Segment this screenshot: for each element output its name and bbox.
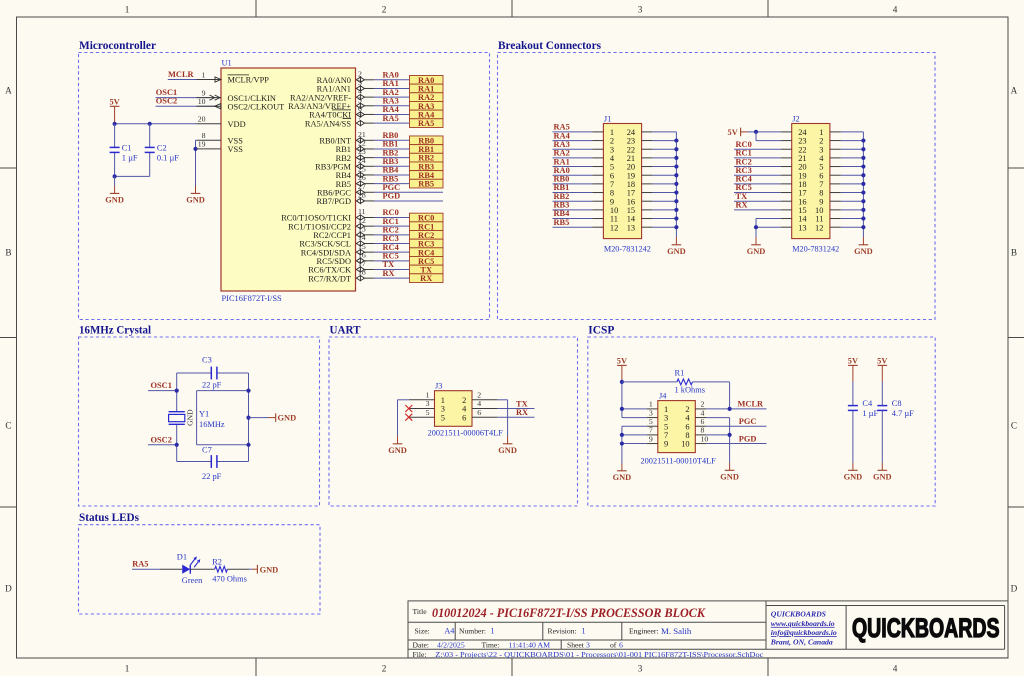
svg-text:GND: GND [844, 473, 863, 482]
svg-text:1: 1 [649, 400, 653, 409]
crystal case pin GND bracket [185, 391, 248, 445]
port TX [410, 265, 444, 274]
connector J1 body [603, 114, 651, 253]
svg-text:RA3: RA3 [383, 96, 399, 105]
port RA4 [410, 110, 444, 119]
ground GND below C1 [105, 176, 124, 204]
svg-text:A: A [1011, 86, 1018, 96]
capacitor C4 [848, 382, 879, 463]
U1 pin 13 RC2/CCP1 [313, 224, 374, 240]
svg-text:010012024 - PIC16F872T-I/SS PR: 010012024 - PIC16F872T-I/SS PROCESSOR BL… [432, 606, 706, 620]
svg-text:RC2: RC2 [418, 231, 434, 240]
svg-text:RB2: RB2 [554, 192, 570, 201]
svg-text:21: 21 [798, 154, 806, 163]
svg-text:RA4: RA4 [383, 105, 400, 114]
svg-text:MCLR/VPP: MCLR/VPP [228, 76, 270, 85]
svg-text:C7: C7 [202, 446, 212, 455]
ground GND below VSS [186, 186, 205, 205]
svg-text:GND: GND [185, 409, 194, 426]
wire C1-C2 bottoms [115, 175, 150, 177]
net label TX with wire [374, 260, 410, 269]
svg-text:J3: J3 [435, 381, 442, 390]
svg-text:4.7 µF: 4.7 µF [892, 409, 914, 418]
svg-text:VSS: VSS [228, 145, 244, 154]
svg-text:21: 21 [358, 130, 366, 139]
U1 pin 26 RB5 [336, 173, 374, 189]
svg-text:8: 8 [685, 431, 689, 440]
svg-text:18: 18 [627, 180, 635, 189]
U1 pin 14 RC3/SCK/SCL [299, 233, 374, 249]
svg-text:18: 18 [358, 268, 366, 277]
svg-text:RC3: RC3 [736, 166, 752, 175]
svg-text:18: 18 [798, 180, 806, 189]
svg-text:OSC2: OSC2 [156, 97, 177, 106]
U1 pin 25 RB4 [336, 165, 374, 181]
svg-text:27: 27 [358, 182, 366, 191]
svg-text:RC0: RC0 [418, 214, 434, 223]
net label RB5 to J1 with wire [553, 218, 604, 227]
U1 pin 12 RC1/T1OSI/CCP2 [288, 216, 374, 232]
svg-text:8: 8 [819, 189, 823, 198]
svg-text:RC2/CCP1: RC2/CCP1 [313, 231, 351, 240]
net label OSC2 with wire [148, 435, 177, 445]
net label OSC2 with wire [156, 97, 215, 107]
net label RC5 to J2 with wire [734, 183, 792, 192]
svg-text:2: 2 [382, 664, 387, 674]
svg-text:Breakout Connectors: Breakout Connectors [498, 39, 601, 52]
junction J2 bus [861, 147, 865, 151]
net label PGC with wire [695, 417, 766, 426]
svg-text:RA5/AN4/SS: RA5/AN4/SS [305, 119, 351, 128]
svg-text:Title: Title [413, 607, 428, 616]
svg-text:C8: C8 [892, 399, 902, 408]
svg-text:7: 7 [358, 113, 362, 122]
svg-text:1: 1 [426, 391, 430, 400]
svg-text:QUICKBOARDS: QUICKBOARDS [852, 613, 1000, 643]
net label RB0 with wire [374, 131, 410, 140]
svg-text:Time:: Time: [482, 641, 500, 650]
svg-text:1 µF: 1 µF [862, 409, 878, 418]
svg-text:RB5: RB5 [418, 180, 434, 189]
svg-text:4: 4 [701, 408, 705, 417]
net label RB1 to J1 with wire [553, 183, 604, 192]
svg-text:21: 21 [627, 154, 635, 163]
svg-text:of: of [610, 641, 617, 650]
svg-text:RA2: RA2 [554, 149, 570, 158]
J2 right side ground bus [830, 132, 864, 237]
svg-text:RC3: RC3 [383, 234, 399, 243]
junction J2 bus [861, 182, 865, 186]
svg-text:26: 26 [358, 173, 366, 182]
svg-text:A4: A4 [444, 627, 454, 636]
net label RC1 to J2 with wire [734, 149, 792, 158]
svg-text:TX: TX [420, 266, 432, 275]
svg-text:3: 3 [664, 414, 668, 423]
junction J1 bus [674, 225, 678, 229]
svg-text:RB2: RB2 [418, 154, 434, 163]
svg-text:8: 8 [610, 189, 614, 198]
svg-text:5V: 5V [877, 357, 887, 366]
svg-text:RB1: RB1 [383, 140, 399, 149]
net label RB3 with wire [374, 157, 410, 166]
svg-text:20: 20 [198, 115, 206, 124]
U1 pin 8 VSS [197, 131, 244, 145]
svg-text:GND: GND [278, 414, 297, 423]
svg-text:PGC: PGC [739, 417, 757, 426]
wire LED to R2 [190, 568, 214, 570]
svg-text:RB0: RB0 [383, 131, 399, 140]
svg-text:22: 22 [627, 145, 635, 154]
power port GND right of crystal [249, 413, 297, 422]
section box: 16MHz Crystal [79, 337, 320, 506]
net label RX to J2 with wire [734, 201, 792, 210]
svg-text:RA2: RA2 [383, 88, 399, 97]
svg-text:D: D [5, 584, 12, 594]
svg-text:B: B [1011, 248, 1017, 258]
junction at C1 top [113, 122, 117, 126]
ground GND below C4 [844, 463, 863, 482]
svg-text:GND: GND [854, 247, 873, 256]
svg-text:11: 11 [610, 215, 618, 224]
svg-text:9: 9 [819, 197, 823, 206]
wire J4 pins 4,8 to ground [695, 418, 729, 463]
svg-text:2: 2 [358, 69, 362, 78]
net label TX to J2 with wire [734, 192, 792, 201]
svg-text:6: 6 [701, 417, 705, 426]
svg-text:RC1: RC1 [383, 217, 399, 226]
net label RX with wire [374, 269, 410, 278]
svg-text:R1: R1 [675, 369, 685, 378]
svg-text:RC1: RC1 [736, 149, 752, 158]
svg-text:QUICKBOARDS: QUICKBOARDS [771, 610, 826, 619]
svg-text:M20-7831242: M20-7831242 [792, 244, 839, 253]
svg-text:RB5: RB5 [383, 174, 399, 183]
svg-text:22 pF: 22 pF [202, 381, 222, 390]
junction J1 bus [674, 164, 678, 168]
svg-text:5V: 5V [109, 98, 119, 107]
svg-text:Z:\03 - Projects\22 - QUICKBOA: Z:\03 - Projects\22 - QUICKBOARDS\01 - P… [435, 650, 764, 659]
svg-text:5: 5 [649, 417, 653, 426]
svg-text:7: 7 [664, 431, 668, 440]
svg-text:6: 6 [685, 422, 689, 431]
svg-text:1 µF: 1 µF [122, 154, 138, 163]
svg-text:RB3: RB3 [554, 201, 570, 210]
svg-text:9: 9 [664, 440, 668, 449]
svg-text:5V: 5V [728, 128, 738, 137]
svg-text:2: 2 [477, 391, 481, 400]
port RB4 [410, 171, 444, 180]
section box: Status LEDs [79, 525, 321, 614]
title block text [413, 606, 764, 659]
U1 pin 28 RB7/PGD [317, 191, 374, 207]
section box: UART [329, 337, 578, 506]
net label MCLR with wire [168, 70, 215, 80]
svg-text:Date:: Date: [413, 641, 429, 650]
port RA0 [410, 75, 444, 84]
svg-text:23: 23 [798, 137, 806, 146]
svg-text:PGD: PGD [383, 192, 401, 201]
svg-text:20021511-00006T4LF: 20021511-00006T4LF [428, 428, 504, 437]
junction right mid [246, 416, 250, 420]
svg-text:RB6/PGC: RB6/PGC [317, 188, 351, 197]
svg-text:5: 5 [819, 163, 823, 172]
port RA2 [410, 93, 444, 102]
svg-text:B: B [5, 248, 11, 258]
net label MCLR with wire at J4 [695, 400, 766, 409]
J1 right side ground bus [642, 132, 677, 237]
svg-text:4/2/2025: 4/2/2025 [437, 641, 465, 650]
svg-text:RC2: RC2 [383, 226, 399, 235]
junction J1 bus [674, 182, 678, 186]
svg-text:GND: GND [260, 566, 279, 575]
svg-text:23: 23 [358, 147, 366, 156]
svg-text:UART: UART [330, 324, 361, 337]
power port 5V above C8 [877, 357, 887, 382]
svg-text:RC7/RX/DT: RC7/RX/DT [308, 274, 351, 283]
svg-text:C: C [1011, 421, 1017, 431]
ground GND below J2 bus [854, 237, 873, 256]
junction at C1 bottom [113, 174, 117, 178]
capacitor C3 [177, 356, 249, 390]
LED D1 [177, 553, 203, 586]
junction J2 bus [861, 225, 865, 229]
port RX [410, 274, 444, 283]
ground GND below J3 left [388, 436, 407, 455]
svg-text:5: 5 [358, 95, 362, 104]
svg-text:C4: C4 [862, 399, 873, 408]
U1 pin 23 RB2 [336, 147, 374, 163]
power port 5V at ICSP [617, 357, 627, 382]
svg-text:19: 19 [198, 140, 206, 149]
svg-text:PIC16F872T-I/SS: PIC16F872T-I/SS [222, 294, 283, 303]
svg-text:10: 10 [815, 206, 823, 215]
svg-text:GND: GND [667, 247, 686, 256]
svg-text:RA1: RA1 [554, 157, 570, 166]
power port 5V above C4 [848, 357, 858, 382]
svg-text:10: 10 [198, 97, 206, 106]
svg-text:VDD: VDD [228, 120, 246, 129]
svg-text:2: 2 [610, 137, 614, 146]
svg-text:24: 24 [627, 128, 636, 137]
svg-text:23: 23 [627, 137, 635, 146]
junction J1 bus [674, 190, 678, 194]
wire J3 pin2 to ground [472, 400, 508, 436]
svg-text:5: 5 [441, 413, 445, 422]
svg-text:1: 1 [582, 627, 586, 636]
svg-text:RA5: RA5 [418, 119, 434, 128]
svg-text:RC6/TX/CK: RC6/TX/CK [308, 266, 351, 275]
section box: ICSP [588, 337, 935, 506]
svg-text:D1: D1 [177, 553, 187, 562]
junction MCLR node [728, 407, 732, 411]
svg-text:5V: 5V [617, 357, 627, 366]
svg-text:RC5: RC5 [383, 252, 399, 261]
QUICKBOARDS logo [852, 613, 1000, 643]
junction right top [246, 389, 250, 393]
svg-text:3: 3 [358, 78, 362, 87]
svg-text:GND: GND [105, 196, 124, 205]
U1 pin 5 RA3/AN3/VREF+ [288, 95, 374, 111]
svg-text:13: 13 [627, 223, 635, 232]
connector J2 pin numbers [798, 128, 824, 232]
power port 5V at J2 [728, 128, 748, 138]
svg-text:24: 24 [798, 128, 807, 137]
port RC4 [410, 248, 444, 257]
svg-text:15: 15 [798, 206, 806, 215]
capacitor C8 [877, 382, 914, 463]
svg-text:RB4: RB4 [336, 171, 352, 180]
svg-text:2: 2 [701, 400, 705, 409]
svg-text:RA5: RA5 [554, 123, 570, 132]
svg-text:1: 1 [819, 128, 823, 137]
svg-text:10: 10 [701, 434, 709, 443]
net label RB2 to J1 with wire [553, 192, 604, 201]
U1 pin 16 RC5/SDO [317, 250, 374, 266]
junction J2 pin13 wire [754, 225, 758, 229]
port RC1 [410, 222, 444, 231]
svg-text:5: 5 [426, 408, 430, 417]
svg-text:5: 5 [610, 163, 614, 172]
svg-text:RA4: RA4 [418, 111, 435, 120]
junction J2 bus [861, 173, 865, 177]
junction at C2 top [148, 122, 152, 126]
net label RA5 with wire [132, 560, 182, 570]
svg-text:RB5: RB5 [554, 218, 570, 227]
svg-text:17: 17 [627, 189, 635, 198]
svg-text:GND: GND [747, 247, 766, 256]
port RB5 [410, 179, 444, 188]
svg-text:RB3: RB3 [418, 162, 434, 171]
svg-text:J4: J4 [659, 391, 667, 400]
U1 pin 3 RA1/AN1 [317, 78, 374, 94]
svg-text:RB1: RB1 [418, 145, 434, 154]
svg-text:C: C [5, 421, 11, 431]
junction OSC2 [175, 443, 179, 447]
svg-text:A: A [5, 86, 12, 96]
wire crystal left vertical [176, 373, 178, 462]
J3 pin 5 no connect [405, 414, 434, 421]
svg-text:File:: File: [413, 650, 427, 659]
svg-text:Engineer:: Engineer: [629, 627, 659, 636]
svg-text:3: 3 [638, 5, 643, 15]
svg-text:RC5/SDO: RC5/SDO [317, 257, 351, 266]
svg-text:Y1: Y1 [199, 410, 209, 419]
svg-text:19: 19 [627, 171, 635, 180]
net label RA0 with wire [374, 71, 410, 80]
junction J1 bus [674, 199, 678, 203]
section box: Microcontroller [79, 53, 490, 320]
svg-text:RA3: RA3 [554, 140, 570, 149]
svg-text:www.quickboards.io: www.quickboards.io [771, 619, 835, 628]
U1 pin 15 RC4/SDI/SDA [301, 242, 374, 258]
connector J4 body [641, 391, 717, 465]
junction OSC1 [175, 389, 179, 393]
net label OSC1 with wire [148, 381, 177, 391]
U1 pin 21 RB0/INT [319, 130, 374, 146]
svg-text:C3: C3 [202, 356, 212, 365]
capacitor C7 [177, 446, 249, 481]
net label OSC1 with wire [156, 88, 210, 98]
svg-text:15: 15 [358, 242, 366, 251]
svg-text:16MHz: 16MHz [199, 420, 225, 429]
svg-text:11: 11 [358, 207, 366, 216]
svg-text:RA3: RA3 [418, 102, 434, 111]
net label RX with wire [472, 408, 535, 417]
connector J3 body [428, 381, 504, 437]
svg-text:19: 19 [798, 171, 806, 180]
svg-text:RC4: RC4 [736, 175, 753, 184]
junction J2 bus [861, 138, 865, 142]
net label RB4 to J1 with wire [553, 209, 604, 218]
svg-text:2: 2 [685, 405, 689, 414]
svg-text:25: 25 [358, 165, 366, 174]
svg-text:4: 4 [358, 87, 362, 96]
svg-text:4: 4 [893, 5, 898, 15]
svg-text:11:41:40 AM: 11:41:40 AM [509, 641, 551, 650]
svg-text:RA2/AN2/VREF-: RA2/AN2/VREF- [290, 93, 351, 102]
svg-text:0.1 µF: 0.1 µF [157, 154, 179, 163]
svg-text:RA0: RA0 [554, 166, 570, 175]
svg-text:RA0: RA0 [383, 71, 399, 80]
svg-text:RA2: RA2 [418, 93, 434, 102]
U1 pin 19 VSS [197, 140, 244, 154]
svg-text:RB0/INT: RB0/INT [319, 137, 351, 146]
svg-text:RC1/T1OSI/CCP2: RC1/T1OSI/CCP2 [288, 222, 351, 231]
net label RC2 to J2 with wire [734, 157, 792, 166]
port RB3 [410, 162, 444, 171]
net label RB2 with wire [374, 148, 410, 157]
net label RC4 with wire [374, 243, 410, 252]
svg-text:RB2: RB2 [383, 148, 399, 157]
net label RB1 with wire [374, 140, 410, 149]
svg-text:RC4: RC4 [418, 248, 435, 257]
net label RC4 to J2 with wire [734, 175, 792, 184]
svg-text:RB3/PGM: RB3/PGM [315, 162, 351, 171]
capacitor C2 [145, 124, 180, 177]
ground GND below J4 right [720, 463, 739, 482]
net label RB5 with wire [374, 174, 410, 183]
op-amp U1 body (PIC16F872T-I/SS) [221, 59, 356, 304]
svg-text:RA5: RA5 [132, 560, 148, 569]
junction J1 bus [674, 156, 678, 160]
svg-text:RX: RX [420, 274, 432, 283]
power port 5V (VDD rail) [109, 98, 119, 124]
svg-text:9: 9 [610, 197, 614, 206]
net label RC1 with wire [374, 217, 410, 226]
svg-text:16MHz Crystal: 16MHz Crystal [79, 324, 152, 337]
net label RA4 to J1 with wire [553, 131, 604, 140]
U1 pin 4 RA2/AN2/VREF- [290, 87, 374, 103]
svg-text:ICSP: ICSP [588, 324, 614, 337]
svg-text:13: 13 [798, 223, 806, 232]
capacitor C1 [110, 124, 138, 177]
svg-text:RC5: RC5 [418, 257, 434, 266]
svg-text:OSC2: OSC2 [151, 435, 172, 444]
svg-text:RB0: RB0 [418, 136, 434, 145]
connector J4 pin numbers [649, 400, 709, 449]
svg-text:3: 3 [638, 664, 643, 674]
svg-text:PGC: PGC [383, 183, 401, 192]
port RA3 [410, 101, 444, 110]
svg-text:20: 20 [627, 163, 635, 172]
svg-text:R2: R2 [212, 558, 222, 567]
net label RA1 to J1 with wire [553, 157, 604, 166]
svg-text:6: 6 [619, 641, 623, 650]
port RB0 [410, 136, 444, 145]
net label RA5 to J1 with wire [553, 123, 604, 132]
svg-text:PGD: PGD [739, 434, 757, 443]
svg-text:M. Salih: M. Salih [661, 626, 692, 636]
